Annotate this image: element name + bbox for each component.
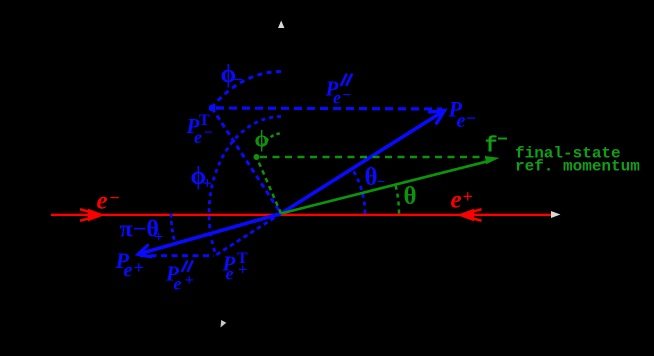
e- beam arrowhead (80, 209, 104, 220)
svg-text:+: + (463, 187, 473, 207)
label PT e+ (222, 250, 249, 284)
e+ beam arrowhead (459, 209, 482, 220)
e+ beam label (451, 187, 473, 214)
label P// e+ (165, 262, 194, 294)
svg-text:e: e (124, 260, 133, 282)
svg-text:+: + (154, 229, 163, 246)
superscript // of P// e+ (182, 261, 192, 271)
svg-text:−: − (342, 87, 352, 104)
beam axis (red) (51, 214, 551, 216)
label phi+ (191, 163, 213, 193)
angle arc theta (green dashed) (395, 185, 399, 214)
z axis arrow (white, right) (551, 211, 561, 218)
component PT e- (blue dashed from node to vertex) (212, 108, 281, 214)
svg-text:+: + (185, 272, 194, 289)
label P_e- (448, 97, 477, 133)
svg-text:π−θ: π−θ (120, 217, 159, 243)
label P// e- (325, 77, 352, 108)
e- beam label (97, 188, 120, 215)
component f// (green dashed horizontal) (260, 156, 486, 159)
svg-text:ϕ: ϕ (255, 127, 269, 152)
node G (transverse tip of f) (254, 154, 260, 160)
angle arc phi- (blue dashed ellipse arc) (212, 71, 281, 107)
label phi (green) (255, 127, 269, 152)
label theta- (365, 164, 386, 191)
svg-text:−: − (204, 125, 214, 142)
vector P_e+ (blue solid) (138, 214, 281, 257)
label f- (green) (485, 131, 508, 159)
svg-text:+: + (203, 174, 213, 193)
annotation final-state ref. momentum (515, 145, 640, 176)
x axis arrow (white, toward viewer down-left) (221, 320, 227, 328)
angle arc phi (green dashed) (261, 134, 279, 148)
f arrowhead (485, 156, 500, 164)
y axis arrow (white, up) (278, 21, 284, 29)
svg-text:e: e (194, 127, 202, 147)
svg-text:e: e (226, 264, 234, 284)
svg-text:−: − (109, 188, 120, 208)
label theta (green) (404, 183, 417, 210)
svg-text:−: − (497, 131, 508, 151)
label phi- (221, 61, 243, 89)
svg-text:−: − (466, 108, 477, 128)
svg-text:+: + (134, 258, 144, 278)
svg-text:e: e (333, 88, 341, 108)
label pi-theta+ (120, 217, 164, 246)
angle arc theta- (blue dashed) (352, 169, 365, 214)
final-state vector f (green solid) (281, 161, 490, 214)
svg-text:−: − (233, 70, 243, 89)
label PT e- (186, 112, 214, 147)
svg-text:e: e (457, 110, 466, 132)
svg-text:ref. momentum: ref. momentum (515, 158, 640, 176)
component P// e+ (horizontal blue dashed) (140, 254, 214, 257)
component P// e- (horizontal blue dashed) (216, 108, 442, 109)
component PT e+ (blue dashed from vertex to corner) (215, 214, 281, 256)
svg-text:e: e (174, 274, 182, 294)
label P_e+ (115, 248, 144, 282)
node N1 (transverse tip, e-) (209, 105, 216, 112)
svg-text:θ: θ (404, 183, 417, 210)
svg-text:f: f (485, 134, 498, 159)
component fT (green dashed vertex to node G) (257, 157, 282, 214)
angle arc pi minus theta+ (blue dashed) (171, 214, 175, 244)
angle arc phi+ (blue dashed ellipse arc) (209, 117, 281, 256)
svg-text:e: e (451, 187, 462, 214)
svg-text:e: e (97, 188, 108, 215)
svg-text:+: + (238, 262, 247, 279)
vector P_e- (blue solid) (281, 111, 445, 214)
superscript // of P// e- (341, 75, 351, 86)
